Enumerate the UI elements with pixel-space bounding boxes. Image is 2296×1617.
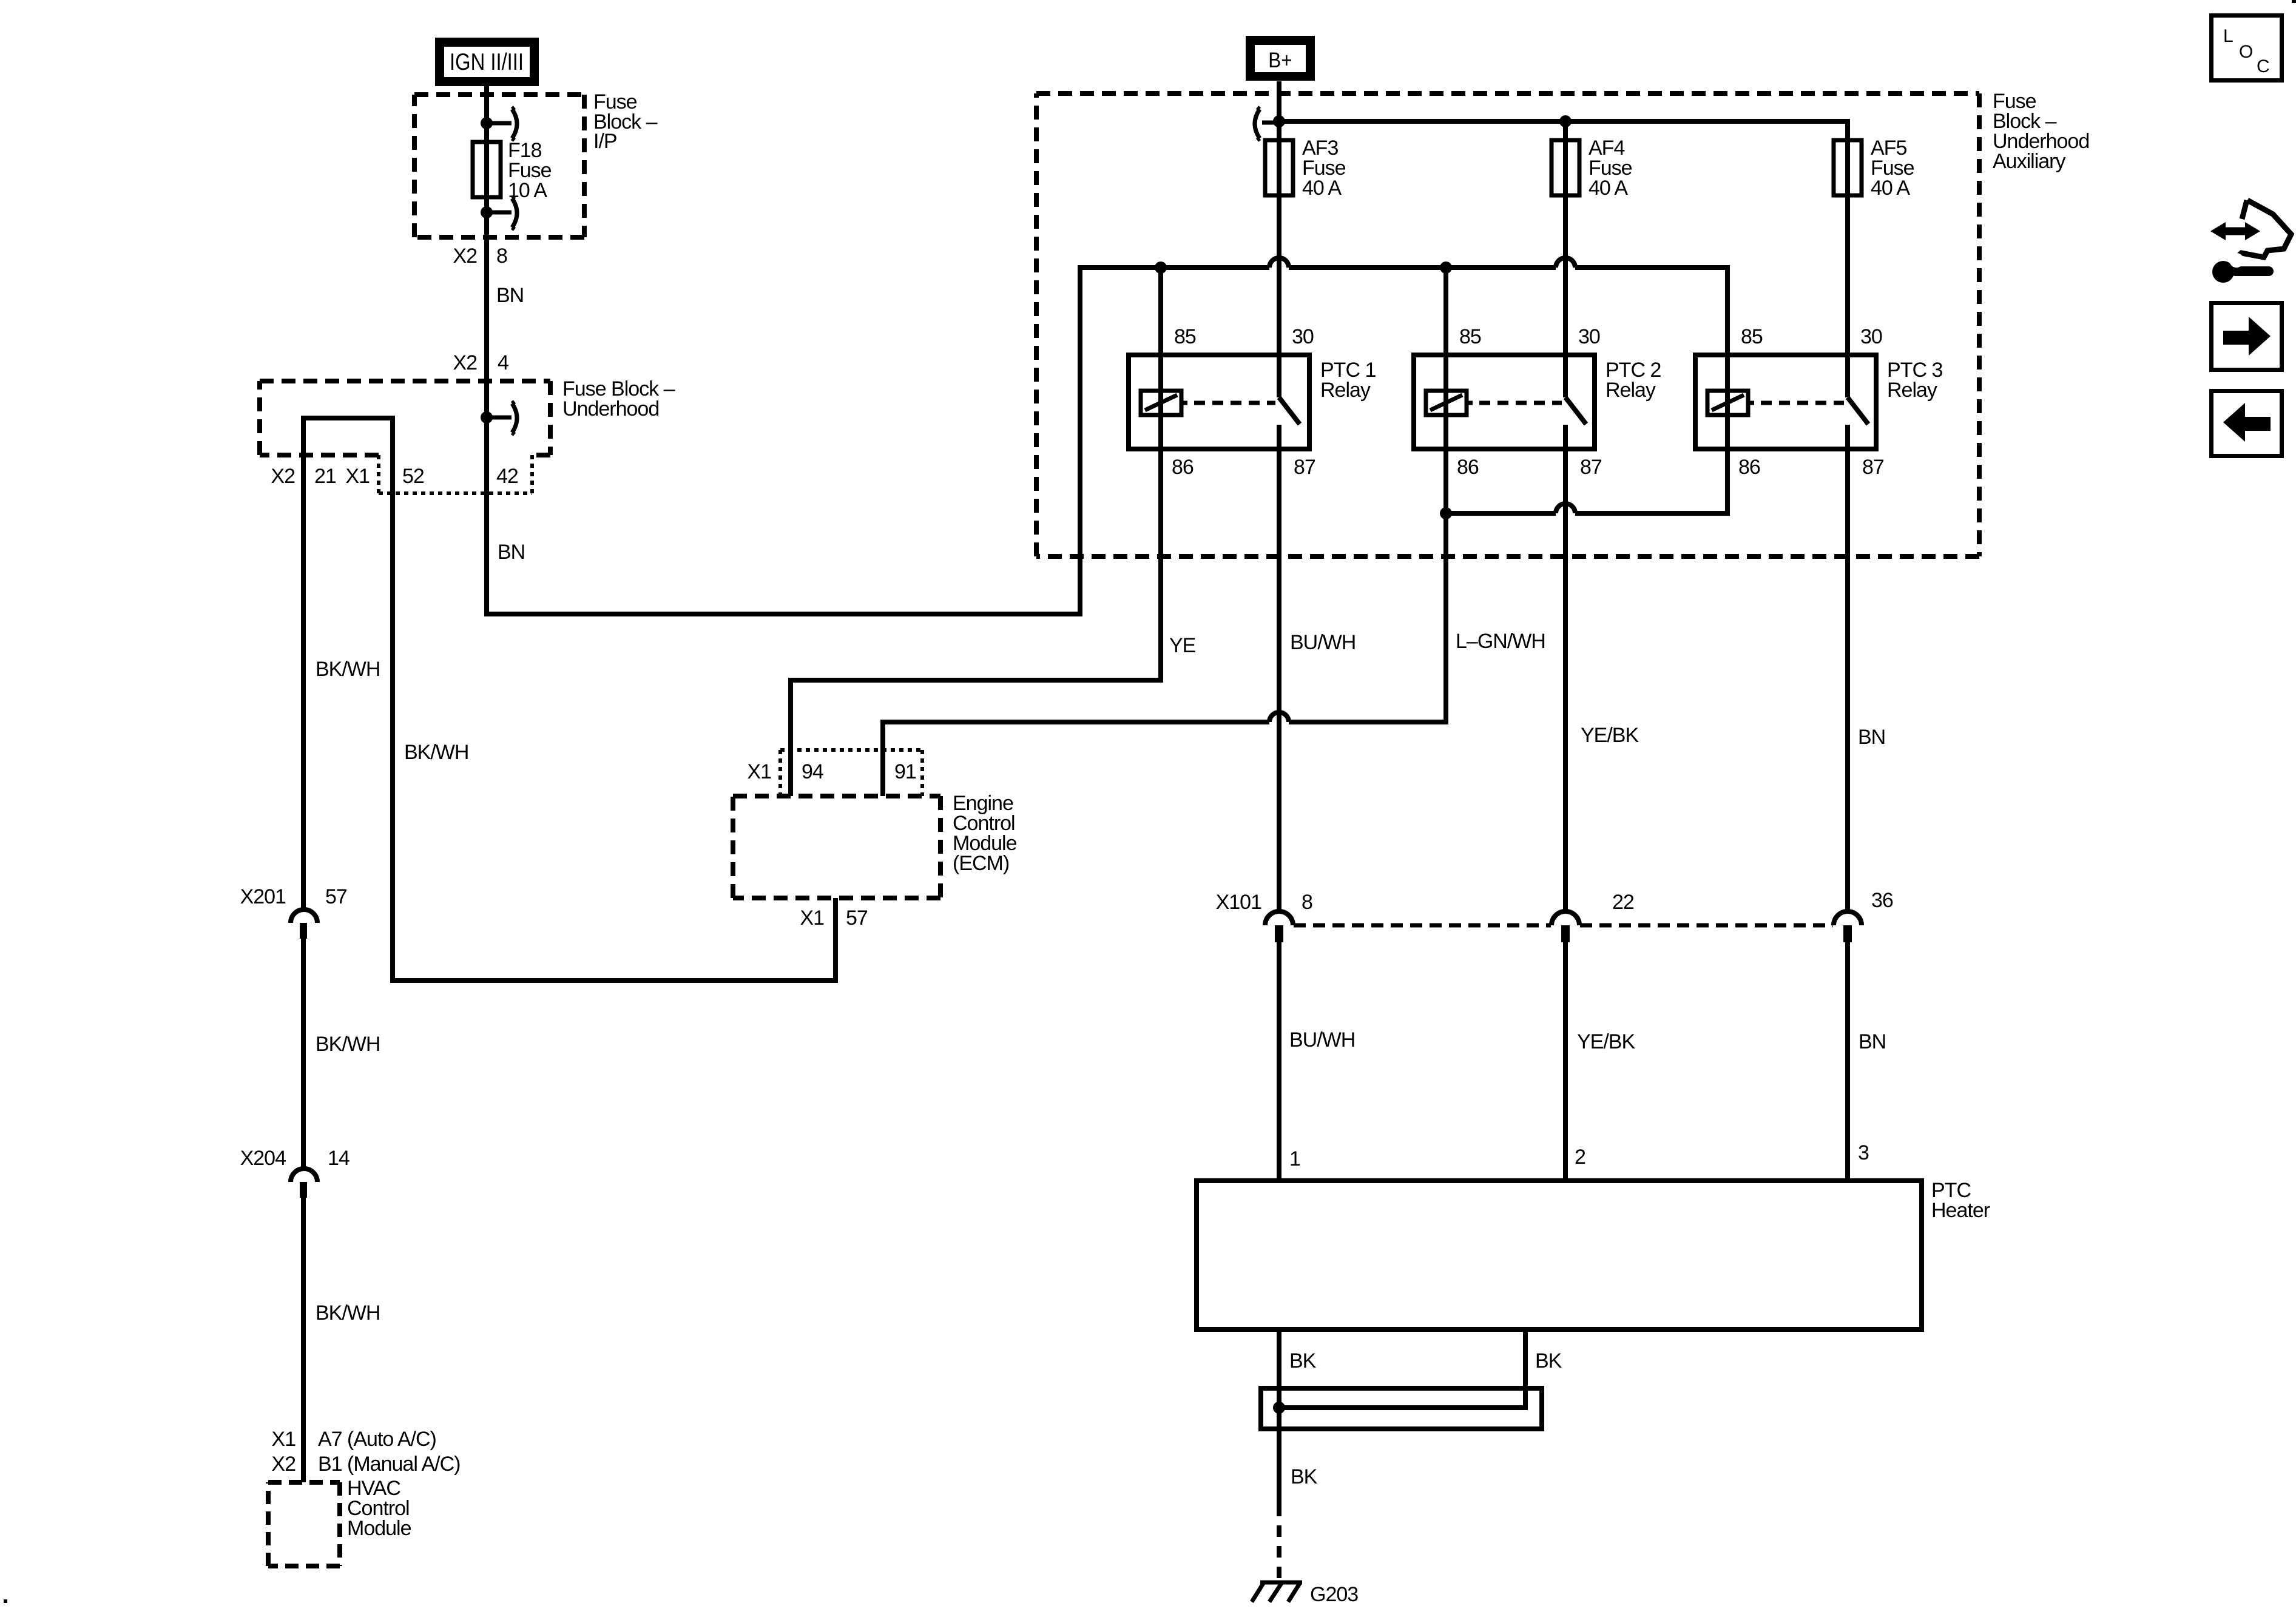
svg-text:X201: X201: [240, 885, 286, 908]
svg-text:85: 85: [1459, 325, 1481, 348]
svg-text:Auxiliary: Auxiliary: [1993, 150, 2065, 173]
wire: BK dashed to ground: [1277, 1505, 1281, 1582]
relay PTC2 switch blade: [1565, 397, 1586, 424]
svg-text:BU/WH: BU/WH: [1290, 631, 1356, 654]
svg-text:57: 57: [325, 885, 347, 908]
svg-text:22: 22: [1612, 891, 1634, 914]
svg-text:BK: BK: [1289, 1349, 1317, 1372]
page corner mark bottom left: [4, 1599, 7, 1603]
svg-text:Relay: Relay: [1320, 379, 1371, 402]
wire: BU/WH X101-8 to PTC heater pin 1: [1277, 942, 1281, 1181]
svg-text:X2: X2: [271, 1453, 295, 1476]
svg-text:Relay: Relay: [1606, 379, 1656, 402]
ground splice box: [1261, 1388, 1542, 1429]
svg-text:Relay: Relay: [1887, 379, 1937, 402]
wire: AF4 column down to PTC2 relay switch: [1563, 121, 1568, 397]
svg-text:30: 30: [1292, 325, 1314, 348]
icon box: arrow left: [2212, 391, 2282, 456]
svg-text:36: 36: [1871, 889, 1893, 912]
svg-text:1: 1: [1289, 1147, 1300, 1170]
wire: BK/WH X201 to X204: [301, 939, 306, 1169]
svg-text:Heater: Heater: [1931, 1199, 1990, 1222]
wire: YE/BK X101-22 to PTC heater pin 2: [1563, 942, 1568, 1181]
svg-text:42: 42: [496, 465, 518, 488]
wire: BN from pin 42 down, across and up to relay coil feed bus: [487, 268, 1080, 614]
wire: through fuse F18: [484, 123, 489, 212]
wire: IGN II/III feed into Fuse Block I/P: [484, 84, 489, 123]
svg-text:40 A: 40 A: [1302, 177, 1342, 200]
svg-text:IGN II/III: IGN II/III: [450, 48, 524, 75]
svg-text:86: 86: [1457, 456, 1479, 479]
wire: AF5 column down to PTC3 relay switch: [1845, 121, 1850, 397]
wire: AF3 column down to PTC1 relay switch: [1277, 121, 1281, 397]
svg-text:Module: Module: [347, 1517, 411, 1540]
svg-text:X1: X1: [747, 760, 771, 783]
svg-text:BN: BN: [1858, 726, 1885, 749]
relay PTC3 coil: [1707, 391, 1748, 415]
dotted connector extension box pins 52/42: [379, 455, 532, 493]
connector X101 pin 36: [1834, 911, 1862, 942]
relay PTC3 outline: [1695, 355, 1876, 449]
svg-text:YE: YE: [1169, 634, 1196, 657]
wire: BK PTC heater left ground lead: [1277, 1329, 1281, 1505]
svg-text:3: 3: [1858, 1141, 1869, 1164]
connector X101 pin 8: [1265, 911, 1293, 942]
svg-text:X1: X1: [271, 1428, 295, 1451]
svg-text:BK/WH: BK/WH: [404, 741, 468, 764]
svg-text:14: 14: [328, 1147, 349, 1170]
svg-text:85: 85: [1174, 325, 1196, 348]
ECM dotted connector extension X1 pins 94/91: [780, 750, 922, 796]
svg-text:X2: X2: [271, 465, 295, 488]
connector X101 dashed gang line: [1294, 923, 1833, 928]
wire: PTC3 87 BN down to X101-36: [1845, 425, 1850, 911]
LOC reference box: [2212, 16, 2282, 81]
connector X204 pass-through: [291, 1169, 317, 1198]
svg-text:57: 57: [846, 906, 868, 930]
svg-text:Underhood: Underhood: [562, 397, 659, 420]
wire: B+ feed down to fuse block: [1277, 81, 1281, 121]
svg-text:BN: BN: [1859, 1030, 1886, 1053]
wire: PTC2 coil 85-86 column: [1443, 268, 1448, 516]
wire: BN circuit F18 to Fuse Block Underhood X2-4: [484, 212, 489, 417]
svg-text:YE/BK: YE/BK: [1581, 724, 1639, 747]
svg-text:X1: X1: [800, 906, 824, 930]
junction: B+ bus at AF3: [1273, 115, 1285, 127]
fuse block Underhood dashed outline: [260, 453, 379, 457]
svg-text:30: 30: [1860, 325, 1882, 348]
wire: BK PTC heater right ground lead: [1279, 1329, 1525, 1408]
relay PTC1 coil-contact link: [1194, 401, 1275, 405]
svg-text:87: 87: [1580, 456, 1602, 479]
junction: B+ bus at AF4: [1559, 115, 1572, 127]
svg-text:40 A: 40 A: [1871, 177, 1910, 200]
svg-text:85: 85: [1741, 325, 1763, 348]
connector X101 pin 22: [1551, 911, 1579, 942]
connector clip at B+ feed: [1255, 107, 1279, 140]
svg-text:94: 94: [802, 760, 823, 783]
svg-text:BN: BN: [498, 541, 525, 564]
wire: PTC2 87 YE/BK down to X101-22: [1563, 425, 1568, 911]
svg-text:86: 86: [1738, 456, 1760, 479]
icon: adjust/navigate hand with double arrow and wrench: [2237, 200, 2291, 257]
svg-text:BN: BN: [496, 284, 524, 307]
junction: coil bus at PTC1 85: [1155, 262, 1167, 274]
svg-text:B1 (Manual A/C): B1 (Manual A/C): [318, 1453, 460, 1476]
wire: PTC1 coil 85-86 column, YE to ECM 94: [791, 268, 1161, 796]
junction: F18 lower clip: [481, 206, 493, 218]
svg-text:YE/BK: YE/BK: [1577, 1030, 1635, 1053]
svg-text:91: 91: [894, 760, 916, 783]
svg-text:8: 8: [1302, 891, 1312, 914]
svg-text:C: C: [2257, 56, 2269, 76]
ECM dashed outline: [733, 794, 940, 798]
svg-text:X204: X204: [240, 1147, 286, 1170]
junction: underhood clip: [481, 411, 493, 424]
svg-text:30: 30: [1578, 325, 1600, 348]
svg-text:BK/WH: BK/WH: [316, 1301, 380, 1325]
svg-text:86: 86: [1172, 456, 1194, 479]
svg-text:2: 2: [1575, 1146, 1585, 1169]
relay PTC1 switch blade: [1279, 397, 1300, 424]
fuse AF5: [1834, 140, 1862, 195]
page corner mark top right: [2292, 0, 2296, 3]
wire: L-GN/WH run to ECM 91 with hop over AF3 column: [883, 513, 1446, 796]
wire: BK/WH X204 to HVAC control module: [301, 1198, 306, 1482]
svg-text:X2: X2: [453, 351, 477, 374]
relay PTC3 coil-contact link: [1761, 401, 1844, 405]
svg-text:X101: X101: [1216, 891, 1261, 914]
svg-text:L: L: [2223, 26, 2233, 46]
relay PTC1 outline: [1129, 355, 1309, 449]
HVAC control module dashed outline: [268, 1480, 340, 1485]
svg-text:G203: G203: [1310, 1583, 1358, 1606]
relay PTC2 outline: [1414, 355, 1595, 449]
svg-text:L–GN/WH: L–GN/WH: [1456, 630, 1545, 653]
svg-text:40 A: 40 A: [1589, 177, 1628, 200]
wire: BK/WH pin X2-21 up over to pin X1-52 and down to ECM 57: [303, 418, 836, 981]
relay PTC2 coil-contact link: [1479, 401, 1562, 405]
junction: splice: [1273, 1402, 1285, 1414]
svg-text:21: 21: [314, 465, 336, 488]
terminal box B+: [1246, 36, 1315, 81]
fuse block underhood auxiliary dashed outline: [1036, 91, 1979, 96]
svg-text:BK: BK: [1535, 1349, 1562, 1372]
wire: BN X101-36 to PTC heater pin 3: [1845, 942, 1850, 1181]
fuse AF4: [1551, 140, 1579, 195]
svg-text:X2: X2: [453, 245, 477, 268]
wire: coil ground bus PTC2-86 to PTC3-86 with hop over AF4 column: [1446, 504, 1575, 513]
svg-text:I/P: I/P: [593, 130, 617, 153]
junction: F18 upper clip: [481, 117, 493, 129]
svg-text:(ECM): (ECM): [953, 852, 1009, 875]
svg-text:8: 8: [496, 245, 507, 268]
relay PTC2 coil: [1426, 391, 1467, 415]
PTC heater outline: [1197, 1181, 1922, 1329]
svg-text:B+: B+: [1268, 49, 1292, 73]
icon box: arrow right: [2212, 303, 2282, 370]
fuse AF3: [1265, 140, 1293, 195]
svg-text:X1: X1: [345, 465, 370, 488]
connector clip inside fuse block underhood: [487, 402, 517, 434]
svg-text:O: O: [2239, 42, 2252, 62]
connector X201 pass-through: [291, 910, 317, 939]
svg-text:4: 4: [498, 351, 508, 374]
fuse block I/P dashed outline: [414, 92, 584, 97]
fuse F18: [473, 142, 501, 197]
wire: PTC3 coil 85-86 column joining coil feed bus and coil ground bus: [1575, 268, 1727, 513]
svg-text:52: 52: [402, 465, 424, 488]
wire: relay coil feed bus with hops over AF3/AF4 columns: [1080, 258, 1575, 270]
svg-text:BK/WH: BK/WH: [316, 1033, 380, 1056]
svg-text:10 A: 10 A: [508, 179, 547, 202]
wire: B+ distribution bus to AF4 and AF5: [1279, 121, 1848, 126]
svg-text:BU/WH: BU/WH: [1289, 1028, 1355, 1052]
junction: coil ground bus at PTC2 86: [1440, 507, 1452, 519]
svg-text:BK: BK: [1291, 1465, 1318, 1488]
fuse clip lower F18: [487, 197, 517, 229]
svg-text:87: 87: [1294, 456, 1315, 479]
junction: coil bus at PTC2 85: [1440, 262, 1452, 274]
wire: PTC1 87 BU/WH down to X101-8: [1277, 425, 1281, 911]
terminal box IGN II/III: [435, 38, 539, 86]
ground symbol G203: [1252, 1582, 1302, 1602]
svg-text:A7 (Auto A/C): A7 (Auto A/C): [318, 1428, 436, 1451]
svg-text:BK/WH: BK/WH: [316, 658, 380, 681]
svg-text:87: 87: [1862, 456, 1884, 479]
relay PTC3 switch blade: [1848, 397, 1868, 424]
relay PTC1 coil: [1141, 391, 1181, 415]
fuse clip upper F18: [487, 107, 517, 140]
